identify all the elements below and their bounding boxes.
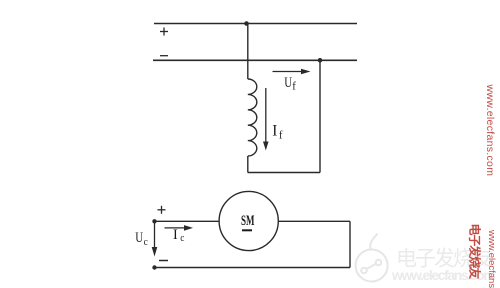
wire top supply rail (+) — [154, 23, 357, 25]
node junction armature left top — [152, 219, 156, 223]
label minus sign lower rail — [160, 55, 168, 57]
node junction on lower rail — [318, 58, 323, 63]
motor SM circle — [219, 191, 278, 250]
wire lower supply rail (-) — [153, 59, 357, 61]
arrow Ic (armature current) — [165, 225, 194, 231]
svg-text:f: f — [292, 80, 296, 93]
svg-text:f: f — [279, 129, 283, 142]
node junction on top rail — [244, 21, 249, 26]
svg-text:I: I — [173, 227, 178, 243]
svg-text:www.elecfans.com: www.elecfans.com — [486, 229, 497, 288]
wire motor armature top — [155, 220, 220, 222]
wire below inductor — [247, 156, 249, 173]
label plus sign top rail — [160, 28, 168, 36]
label dash under SM — [242, 229, 252, 231]
arrow Uf (field voltage) — [273, 69, 311, 75]
node junction armature left bottom — [152, 265, 156, 269]
wire field branch vertical drop — [247, 24, 249, 80]
svg-text:U: U — [135, 229, 143, 245]
label plus sign armature — [158, 206, 166, 214]
svg-text:www.elecfans.com: www.elecfans.com — [484, 84, 496, 177]
wire field loop right side — [319, 60, 321, 172]
label minus sign armature — [159, 260, 168, 262]
wire field loop bottom — [248, 172, 320, 174]
inductor field winding — [248, 79, 257, 156]
svg-text:U: U — [284, 75, 292, 91]
wire motor armature right — [278, 220, 350, 222]
svg-text:I: I — [272, 122, 277, 139]
svg-text:SM: SM — [241, 212, 255, 229]
svg-text:c: c — [180, 232, 185, 244]
svg-text:电子发烧友: 电子发烧友 — [468, 224, 483, 280]
arrow If (field current) — [263, 88, 269, 151]
svg-text:c: c — [144, 236, 149, 248]
wire armature loop right side — [349, 221, 351, 267]
wire armature loop bottom — [155, 267, 351, 269]
watermark faint elecfans logo — [356, 234, 388, 282]
arrow Uc (armature voltage, downward) — [152, 221, 158, 256]
